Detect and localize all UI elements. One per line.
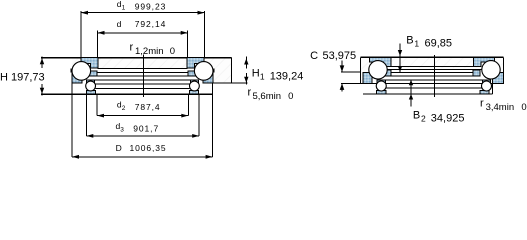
svg-text:H 197,73: H 197,73 (0, 71, 45, 83)
svg-text:H1139,24: H1139,24 (252, 68, 304, 83)
svg-text:C53,975: C53,975 (310, 50, 356, 62)
